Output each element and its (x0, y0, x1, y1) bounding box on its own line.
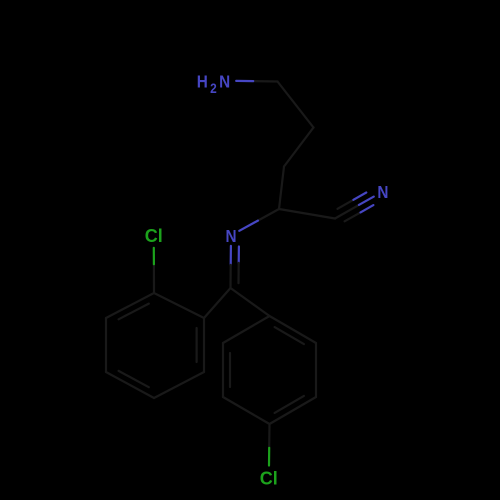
label H2N amine (197, 71, 230, 96)
bond CH2-CH2 (chain) (284, 128, 314, 167)
C-Cl bond (ortho chlorine) (153, 264, 155, 293)
bond H2N-CH2 (amine) (253, 80, 277, 83)
svg-text:2: 2 (210, 80, 217, 96)
bond imine C - 2-chlorophenyl ipso (204, 288, 231, 318)
bond alpha C - nitrile C (279, 209, 335, 219)
benzene ring of 2-chlorophenyl (106, 293, 154, 318)
bond CH2-CH (chain to alpha carbon) (279, 167, 284, 210)
C-Cl bond (para chlorine) (268, 424, 270, 448)
svg-text:Cl: Cl (145, 226, 163, 246)
svg-text:N: N (219, 71, 230, 91)
svg-text:N: N (377, 182, 388, 202)
svg-text:N: N (225, 226, 236, 246)
nitrile C#N triple bond (335, 205, 359, 219)
svg-text:H: H (197, 71, 208, 91)
bond CH2-CH2 (chain) (278, 82, 314, 128)
bond alpha C - imine N (258, 209, 279, 221)
svg-text:Cl: Cl (260, 469, 278, 489)
imine N=C double bond (230, 246, 232, 265)
benzene ring of 4-chlorophenyl (270, 316, 317, 343)
bond imine C - 4-chlorophenyl ipso (231, 288, 270, 316)
